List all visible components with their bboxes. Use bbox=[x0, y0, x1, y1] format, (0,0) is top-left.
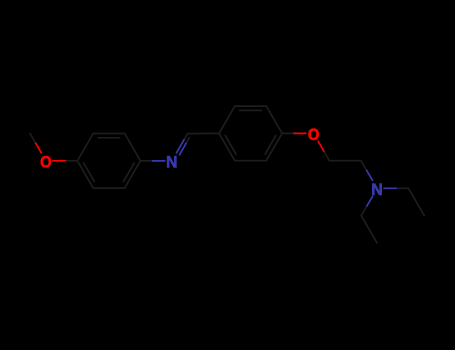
benzene ring2 edge upper-left bbox=[219, 106, 235, 133]
bond N2-CH2 ethyl2 bbox=[361, 206, 367, 216]
bond CH2-CH2 bbox=[329, 160, 361, 162]
svg-text:N: N bbox=[371, 180, 383, 199]
bond ring2-O2 bbox=[282, 132, 294, 134]
benzene ring1 edge upper-right bbox=[125, 134, 141, 161]
ring1 inner double-bond line bbox=[84, 163, 95, 182]
bond CH3-O1 (methyl half dark, O half red) bbox=[30, 134, 36, 144]
imine C=N line1 bbox=[184, 134, 188, 140]
ring1 inner double-bond line bbox=[98, 137, 119, 139]
bond O2-CH2 bbox=[324, 151, 330, 161]
bond CH2-N2 bbox=[361, 161, 367, 171]
benzene ring1 edge bottom bbox=[93, 187, 125, 189]
benzene ring1 edge lower-right bbox=[125, 161, 141, 188]
bond CH2-CH3 ethyl1 bbox=[409, 188, 425, 215]
benzene ring2 edge lower-right bbox=[266, 133, 282, 160]
bond CH-ring2 bbox=[188, 132, 220, 134]
benzene ring2 edge bottom bbox=[235, 160, 266, 162]
ring2 inner double-bond line bbox=[240, 109, 261, 111]
ring2 inner double-bond line bbox=[265, 136, 276, 155]
svg-text:O: O bbox=[308, 125, 320, 144]
svg-text:O: O bbox=[40, 153, 52, 172]
bond ring1-N1 bbox=[140, 160, 152, 162]
benzene ring2 edge top bbox=[235, 105, 266, 107]
ring2 inner double-bond line bbox=[225, 136, 236, 155]
benzene ring1 edge lower-left bbox=[77, 161, 93, 188]
bond CH2-CH3 ethyl2 bbox=[361, 216, 377, 243]
bond O1-ring1 bbox=[65, 160, 77, 162]
bond N2-CH2 ethyl1 bbox=[396, 187, 408, 189]
svg-text:N: N bbox=[166, 153, 178, 172]
benzene ring1 edge top bbox=[93, 133, 125, 135]
imine C=N line2 bbox=[186, 138, 189, 144]
benzene ring2 edge lower-left bbox=[219, 133, 235, 160]
benzene ring1 edge upper-left bbox=[77, 134, 93, 161]
benzene ring2 edge upper-right bbox=[266, 106, 282, 133]
ring1 inner double-bond line bbox=[123, 163, 134, 182]
